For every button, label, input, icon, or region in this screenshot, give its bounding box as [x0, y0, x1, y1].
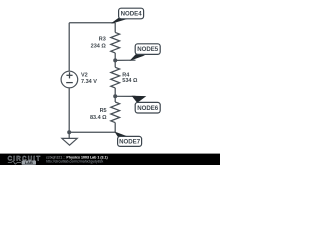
- svg-text:LAB: LAB: [25, 160, 33, 165]
- svg-text:534 Ω: 534 Ω: [122, 78, 138, 84]
- svg-text:R5: R5: [100, 108, 107, 114]
- svg-text:NODE5: NODE5: [137, 46, 159, 53]
- svg-text:NODE7: NODE7: [119, 139, 141, 146]
- svg-text:htto://circuitlab.com/c/mahx2g: htto://circuitlab.com/c/mahx2gydy8zk: [46, 160, 103, 164]
- svg-text:NODE4: NODE4: [121, 11, 143, 18]
- svg-text:7.34 V: 7.34 V: [81, 79, 97, 85]
- svg-text:NODE6: NODE6: [137, 105, 159, 112]
- svg-text:V2: V2: [81, 72, 88, 78]
- svg-text:R3: R3: [99, 37, 106, 43]
- svg-text:234 Ω: 234 Ω: [91, 44, 107, 50]
- svg-text:83.4 Ω: 83.4 Ω: [90, 115, 107, 121]
